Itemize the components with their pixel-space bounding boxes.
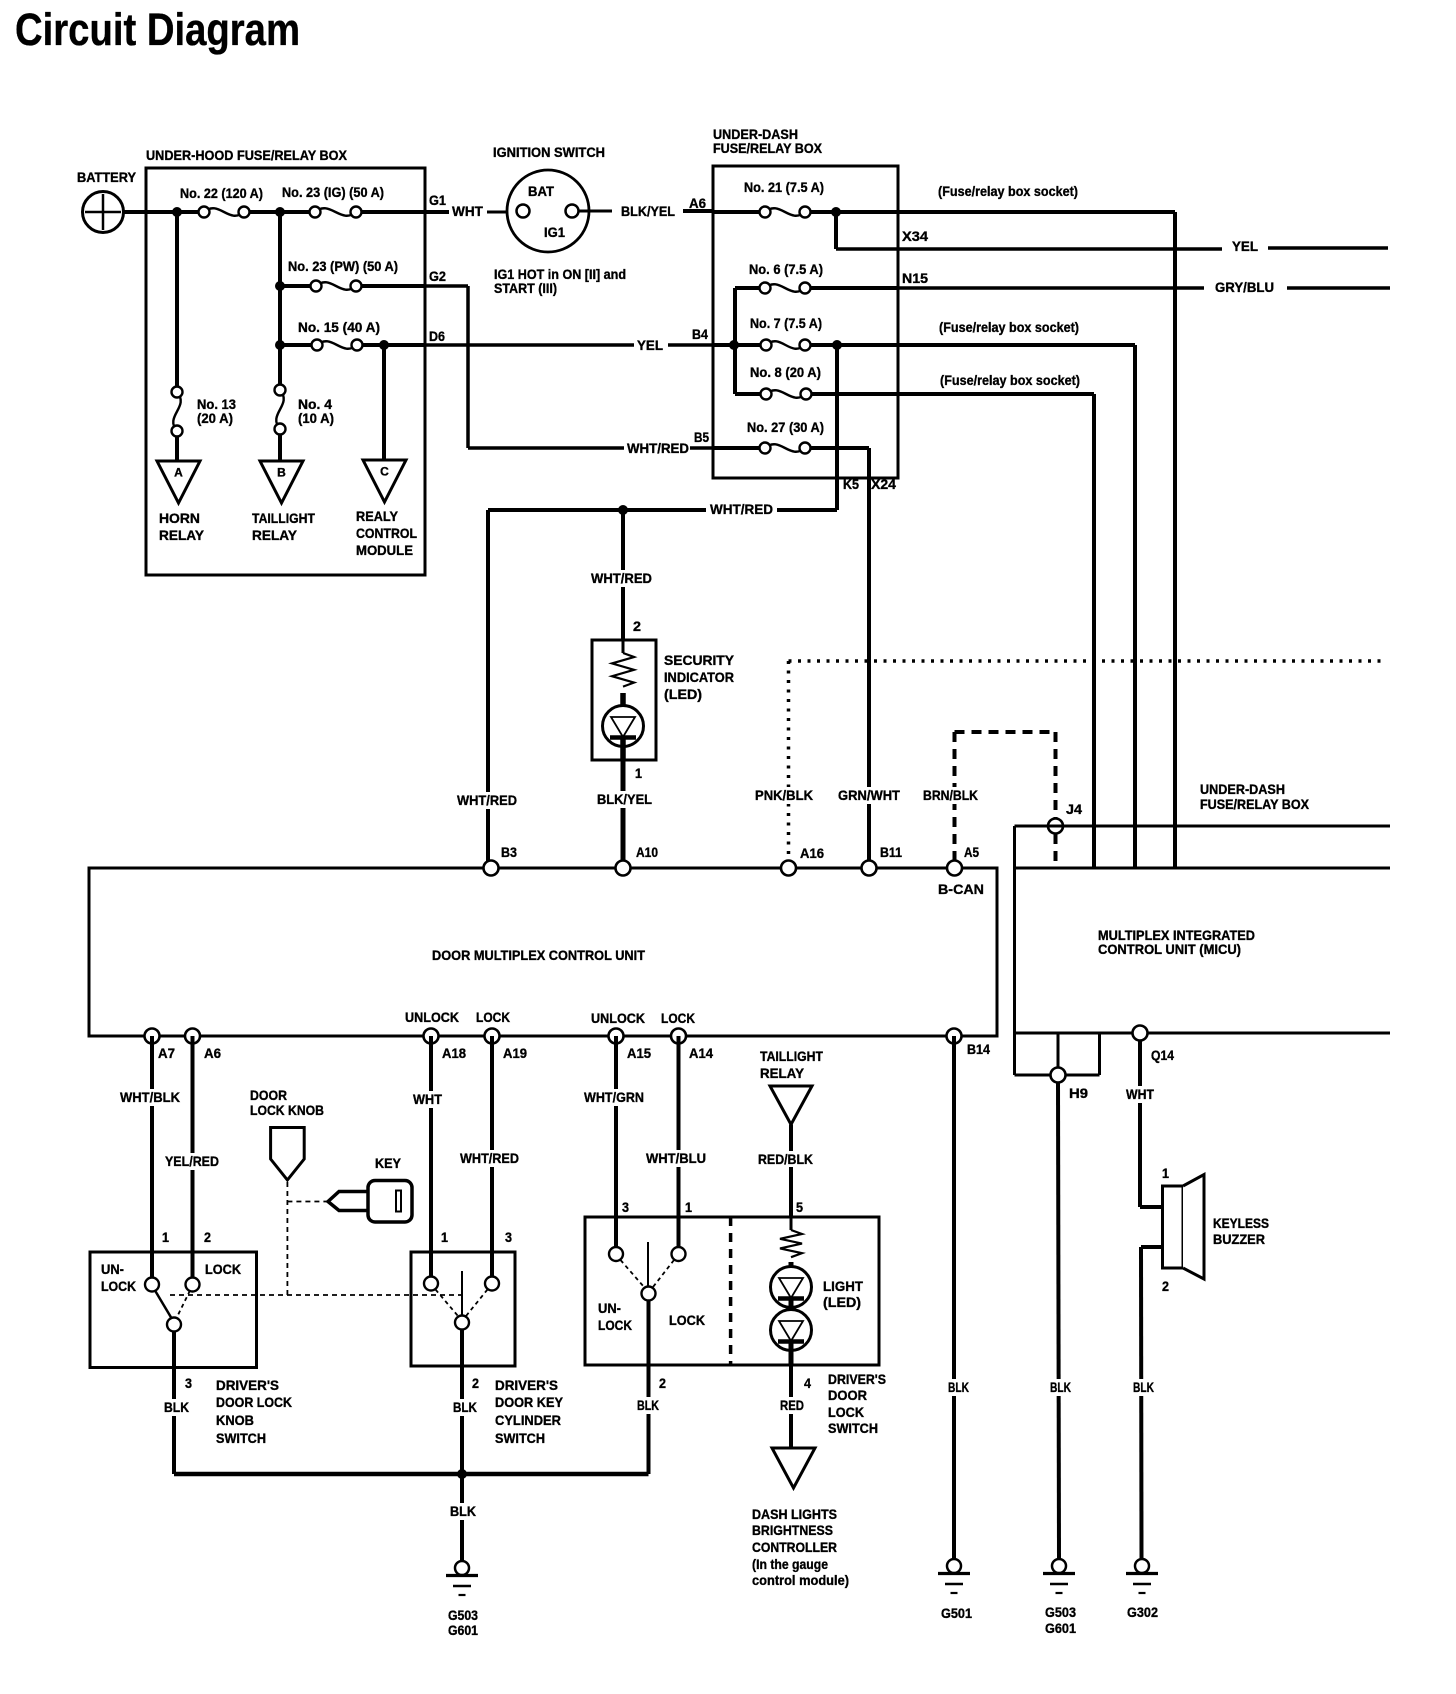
svg-text:WHT: WHT: [1126, 1086, 1154, 1102]
svg-text:B14: B14: [967, 1041, 990, 1057]
svg-text:2: 2: [633, 618, 641, 634]
left bus inside under-dash box: [733, 288, 737, 394]
svg-text:PNK/BLK: PNK/BLK: [755, 787, 813, 803]
svg-text:WHT/GRN: WHT/GRN: [584, 1089, 644, 1105]
svg-text:No. 8 (20 A): No. 8 (20 A): [750, 364, 821, 380]
node A15: [609, 1029, 624, 1044]
svg-text:1: 1: [162, 1229, 169, 1245]
svg-text:BLK: BLK: [637, 1397, 659, 1413]
dashed wire BRN/BLK to J4 and A5: [953, 732, 957, 868]
svg-text:A6: A6: [689, 195, 706, 211]
svg-text:2: 2: [472, 1375, 479, 1391]
svg-text:IGNITION SWITCH: IGNITION SWITCH: [493, 144, 605, 160]
node A16: [781, 861, 796, 876]
svg-text:B-CAN: B-CAN: [938, 881, 984, 897]
svg-text:WHT: WHT: [452, 203, 483, 219]
svg-text:G1: G1: [429, 192, 446, 208]
node junction x280: [275, 207, 285, 217]
wire D6 to B4, YEL: [425, 343, 634, 347]
svg-text:UNDER-HOOD FUSE/RELAY BOX: UNDER-HOOD FUSE/RELAY BOX: [146, 147, 348, 163]
svg-text:INDICATOR: INDICATOR: [664, 669, 734, 685]
svg-text:(Fuse/relay box socket): (Fuse/relay box socket): [939, 319, 1079, 335]
svg-text:DRIVER'S: DRIVER'S: [495, 1377, 558, 1393]
svg-text:A10: A10: [636, 844, 658, 860]
wire G2 to B5: [425, 284, 468, 288]
svg-text:A7: A7: [158, 1045, 175, 1061]
under-dash fuse/relay box (upper): [713, 166, 898, 478]
node A14: [671, 1029, 686, 1044]
svg-text:B: B: [277, 466, 286, 480]
wire to ground G503/G601 (left): [460, 1474, 464, 1561]
svg-text:WHT: WHT: [413, 1091, 442, 1107]
dashed mechanical link: [170, 1294, 462, 1296]
node A10: [616, 861, 631, 876]
wire buzzer pin2 BLK: [1141, 1245, 1163, 1249]
svg-text:LOCK: LOCK: [205, 1261, 241, 1277]
svg-text:BATTERY: BATTERY: [77, 169, 137, 185]
svg-text:A5: A5: [964, 844, 979, 860]
svg-text:A19: A19: [503, 1045, 527, 1061]
svg-text:DOOR: DOOR: [250, 1087, 287, 1103]
svg-text:LIGHT: LIGHT: [823, 1278, 863, 1294]
svg-text:START (III): START (III): [494, 280, 557, 296]
svg-text:DOOR KEY: DOOR KEY: [495, 1394, 564, 1410]
ground G501: [947, 1559, 961, 1573]
svg-text:1: 1: [1162, 1165, 1169, 1181]
wire ignition to A6: [578, 210, 612, 213]
svg-text:YEL: YEL: [637, 337, 663, 353]
node B3: [484, 861, 499, 876]
svg-text:A: A: [174, 466, 183, 480]
dashed divider: [729, 1217, 733, 1365]
switch blade: [155, 1291, 172, 1320]
node A19: [485, 1029, 500, 1044]
svg-text:DRIVER'S: DRIVER'S: [828, 1371, 886, 1387]
node A18: [424, 1029, 439, 1044]
svg-text:3: 3: [622, 1199, 629, 1215]
svg-text:1: 1: [635, 765, 642, 781]
svg-text:BLK: BLK: [948, 1379, 969, 1395]
driver's door key cylinder switch: [411, 1252, 515, 1366]
svg-text:H9: H9: [1069, 1085, 1088, 1101]
svg-text:GRN/WHT: GRN/WHT: [838, 787, 900, 803]
svg-text:YEL/RED: YEL/RED: [165, 1153, 219, 1169]
svg-text:G503: G503: [1045, 1604, 1076, 1620]
BLK bus: [174, 1472, 649, 1477]
wire A7 WHT/BLK: [150, 1036, 154, 1285]
svg-text:No. 21 (7.5 A): No. 21 (7.5 A): [744, 179, 824, 195]
node junction x177: [172, 207, 182, 217]
svg-text:G601: G601: [448, 1622, 478, 1638]
svg-text:BRN/BLK: BRN/BLK: [923, 787, 978, 803]
svg-text:No. 6 (7.5 A): No. 6 (7.5 A): [749, 261, 823, 277]
svg-text:LOCK: LOCK: [661, 1010, 695, 1026]
svg-text:CONTROL UNIT (MICU): CONTROL UNIT (MICU): [1098, 941, 1241, 957]
svg-text:BLK: BLK: [450, 1503, 476, 1519]
node B14: [947, 1029, 962, 1044]
svg-text:BLK/YEL: BLK/YEL: [597, 791, 652, 807]
svg-text:LOCK: LOCK: [101, 1278, 136, 1294]
svg-text:BRIGHTNESS: BRIGHTNESS: [752, 1522, 833, 1538]
svg-text:TAILLIGHT: TAILLIGHT: [760, 1048, 823, 1064]
horn relay terminal A: [157, 461, 200, 503]
security indicator branch: [621, 510, 625, 640]
svg-text:KEYLESS: KEYLESS: [1213, 1215, 1269, 1231]
svg-text:WHT/BLK: WHT/BLK: [120, 1089, 180, 1105]
svg-text:No. 27 (30 A): No. 27 (30 A): [747, 419, 824, 435]
svg-text:HORN: HORN: [159, 510, 200, 526]
security indicator (LED): [592, 640, 656, 760]
svg-text:DOOR LOCK: DOOR LOCK: [216, 1394, 292, 1410]
svg-text:BLK: BLK: [164, 1399, 189, 1415]
driver's door lock switch: [585, 1217, 879, 1365]
svg-text:UNLOCK: UNLOCK: [405, 1009, 459, 1025]
svg-text:X24: X24: [871, 476, 896, 492]
svg-text:2: 2: [659, 1375, 666, 1391]
svg-text:WHT/RED: WHT/RED: [457, 792, 517, 808]
svg-text:Q14: Q14: [1151, 1047, 1174, 1063]
svg-text:(20 A): (20 A): [197, 410, 233, 426]
svg-text:SWITCH: SWITCH: [495, 1430, 545, 1446]
svg-text:CONTROLLER: CONTROLLER: [752, 1539, 837, 1555]
svg-text:(LED): (LED): [823, 1294, 861, 1310]
svg-text:(10 A): (10 A): [298, 410, 334, 426]
svg-text:RED: RED: [780, 1397, 804, 1413]
svg-text:RED/BLK: RED/BLK: [758, 1151, 813, 1167]
svg-text:KNOB: KNOB: [216, 1412, 254, 1428]
svg-text:TAILLIGHT: TAILLIGHT: [252, 510, 315, 526]
svg-text:BLK/YEL: BLK/YEL: [621, 203, 675, 219]
dash lights brightness controller terminal: [772, 1448, 815, 1488]
svg-text:BLK: BLK: [453, 1399, 477, 1415]
svg-text:G503: G503: [448, 1607, 478, 1623]
svg-text:RELAY: RELAY: [252, 527, 298, 543]
svg-text:GRY/BLU: GRY/BLU: [1215, 279, 1274, 295]
svg-text:A18: A18: [442, 1045, 466, 1061]
wire G1 to ignition switch: [425, 210, 449, 214]
svg-text:No. 23 (PW) (50 A): No. 23 (PW) (50 A): [288, 258, 398, 274]
dashed link knob to key: [286, 1182, 288, 1295]
node A5: [947, 861, 962, 876]
svg-text:D6: D6: [429, 328, 445, 344]
dotted wire PNK/BLK: [789, 659, 1384, 663]
svg-text:G302: G302: [1127, 1604, 1158, 1620]
svg-text:A16: A16: [800, 845, 824, 861]
svg-text:1: 1: [685, 1199, 692, 1215]
svg-text:LOCK: LOCK: [669, 1312, 705, 1328]
svg-text:DOOR: DOOR: [828, 1387, 867, 1403]
svg-text:FUSE/RELAY BOX: FUSE/RELAY BOX: [713, 140, 823, 156]
wire B14 BLK: [952, 1036, 956, 1559]
wire pin3 BLK: [172, 1332, 176, 1475]
svg-text:C: C: [380, 465, 389, 479]
ground G503 G601 (right): [1052, 1559, 1066, 1573]
svg-text:CYLINDER: CYLINDER: [495, 1412, 561, 1428]
svg-text:1: 1: [441, 1229, 448, 1245]
ground G302: [1135, 1559, 1149, 1573]
svg-text:No. 7 (7.5 A): No. 7 (7.5 A): [750, 315, 822, 331]
svg-text:UN-: UN-: [101, 1261, 124, 1277]
wire H9 BLK: [1058, 1082, 1059, 1559]
wire A18 WHT: [429, 1036, 433, 1284]
svg-text:BAT: BAT: [528, 183, 554, 199]
svg-text:LOCK: LOCK: [598, 1317, 632, 1333]
keyless buzzer: [1163, 1186, 1184, 1268]
wire A6 YEL/RED: [191, 1036, 195, 1285]
svg-text:2: 2: [1162, 1278, 1169, 1294]
driver's door lock knob switch: [90, 1252, 257, 1368]
svg-text:2: 2: [204, 1229, 211, 1245]
svg-text:WHT/RED: WHT/RED: [710, 501, 773, 517]
svg-text:RELAY: RELAY: [159, 527, 205, 543]
svg-text:LOCK: LOCK: [828, 1404, 864, 1420]
svg-text:B11: B11: [880, 844, 902, 860]
under-hood fuse/relay box: [146, 168, 425, 575]
node Q14: [1133, 1026, 1148, 1041]
svg-text:DRIVER'S: DRIVER'S: [216, 1377, 279, 1393]
relay control module terminal C: [382, 345, 386, 460]
svg-text:B3: B3: [501, 844, 517, 860]
node B11: [862, 861, 877, 876]
svg-text:N15: N15: [902, 270, 928, 286]
svg-text:A15: A15: [627, 1045, 651, 1061]
node A7: [145, 1029, 160, 1044]
svg-text:REALY: REALY: [356, 508, 399, 524]
fuse No.4 (10 A): [278, 212, 282, 385]
svg-text:No. 23 (IG) (50 A): No. 23 (IG) (50 A): [282, 184, 384, 200]
svg-text:LOCK KNOB: LOCK KNOB: [250, 1102, 324, 1118]
svg-text:A14: A14: [689, 1045, 713, 1061]
svg-text:(In the gauge: (In the gauge: [752, 1556, 828, 1572]
wire battery to G1 row: [123, 210, 204, 214]
wire pin2 BLK: [460, 1330, 464, 1475]
svg-text:G501: G501: [941, 1605, 972, 1621]
svg-text:MODULE: MODULE: [356, 542, 413, 558]
node H9: [1057, 1033, 1060, 1068]
svg-text:(LED): (LED): [664, 686, 702, 702]
wire K5 down from No.7 junction: [835, 345, 839, 510]
svg-text:UN-: UN-: [598, 1300, 621, 1316]
svg-text:4: 4: [804, 1375, 811, 1391]
svg-text:No. 15 (40 A): No. 15 (40 A): [298, 319, 380, 335]
wire pin4 RED: [789, 1365, 793, 1448]
door multiplex control unit box: [89, 868, 997, 1036]
light (LED) chain: [790, 1217, 793, 1230]
svg-text:CONTROL: CONTROL: [356, 525, 417, 541]
svg-text:WHT/RED: WHT/RED: [460, 1150, 519, 1166]
svg-text:BLK: BLK: [1133, 1379, 1154, 1395]
svg-text:(Fuse/relay box socket): (Fuse/relay box socket): [940, 372, 1080, 388]
svg-text:3: 3: [505, 1229, 512, 1245]
svg-text:B4: B4: [692, 326, 708, 342]
node A6: [185, 1029, 200, 1044]
svg-text:FUSE/RELAY BOX: FUSE/RELAY BOX: [1200, 796, 1310, 812]
GRN/WHT label: [834, 787, 904, 804]
svg-text:LOCK: LOCK: [476, 1009, 510, 1025]
ground G503 G601 (left): [455, 1561, 469, 1575]
wire A15 WHT/GRN: [614, 1036, 618, 1254]
node J4: [1048, 819, 1063, 834]
svg-text:control module): control module): [752, 1572, 849, 1588]
svg-text:WHT/RED: WHT/RED: [627, 440, 689, 456]
wire Q14 WHT: [1138, 1040, 1142, 1207]
svg-text:G2: G2: [429, 268, 446, 284]
svg-text:Circuit Diagram: Circuit Diagram: [15, 4, 300, 55]
wire WHT/RED row: [488, 508, 837, 512]
svg-text:UNLOCK: UNLOCK: [591, 1010, 645, 1026]
wire A14 WHT/BLU: [677, 1036, 681, 1254]
svg-text:DASH LIGHTS: DASH LIGHTS: [752, 1506, 837, 1522]
svg-text:YEL: YEL: [1232, 238, 1258, 254]
wire LED to A10 BLK/YEL: [621, 760, 626, 868]
svg-text:5: 5: [796, 1199, 803, 1215]
fuse No.13 (20 A): [175, 212, 179, 387]
svg-text:SWITCH: SWITCH: [216, 1430, 266, 1446]
svg-text:RELAY: RELAY: [760, 1065, 805, 1081]
wire X34 YEL: [834, 212, 838, 249]
svg-text:(Fuse/relay box socket): (Fuse/relay box socket): [938, 183, 1078, 199]
svg-text:DOOR MULTIPLEX CONTROL UNIT: DOOR MULTIPLEX CONTROL UNIT: [432, 947, 645, 963]
wire X24 GRN/WHT down to B11: [805, 446, 869, 450]
svg-text:No. 22 (120 A): No. 22 (120 A): [180, 185, 263, 201]
svg-text:J4: J4: [1066, 801, 1082, 817]
wire N15 GRY/BLU: [898, 286, 1204, 290]
svg-text:BUZZER: BUZZER: [1213, 1231, 1265, 1247]
wire pin2 BLK: [647, 1301, 651, 1475]
svg-text:B5: B5: [694, 429, 709, 445]
wire A19 WHT/RED: [490, 1036, 494, 1284]
svg-text:SWITCH: SWITCH: [828, 1420, 878, 1436]
svg-text:X34: X34: [902, 228, 928, 244]
svg-text:IG1: IG1: [544, 224, 565, 240]
svg-text:K5: K5: [843, 476, 859, 492]
svg-text:3: 3: [185, 1375, 192, 1391]
svg-text:WHT/BLU: WHT/BLU: [646, 1150, 706, 1166]
svg-text:SECURITY: SECURITY: [664, 652, 735, 668]
svg-text:UNDER-DASH: UNDER-DASH: [1200, 781, 1285, 797]
svg-text:A6: A6: [204, 1045, 221, 1061]
taillight relay terminal B: [260, 461, 303, 503]
svg-text:KEY: KEY: [375, 1155, 402, 1171]
svg-text:WHT/RED: WHT/RED: [591, 570, 652, 586]
svg-text:BLK: BLK: [1050, 1379, 1071, 1395]
wire B3 branch WHT/RED: [486, 510, 490, 868]
svg-text:G601: G601: [1045, 1620, 1076, 1636]
